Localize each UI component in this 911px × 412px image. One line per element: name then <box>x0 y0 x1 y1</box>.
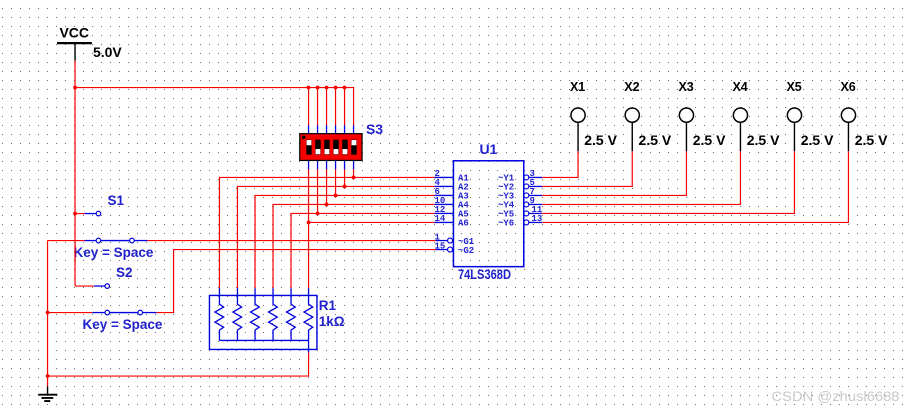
wire S3 pin5 bottom to row2 <box>344 169 346 186</box>
svg-text:U1: U1 <box>479 141 497 157</box>
wire S2 output riser to U1 pin 15 (~G2) <box>156 250 435 313</box>
resistor pack R1 pin stubs top <box>219 288 308 295</box>
svg-text:2.5 V: 2.5 V <box>801 132 834 148</box>
DIP switch S3 body <box>300 134 362 161</box>
S3 slot 6 (ON) <box>351 140 356 155</box>
svg-text:2.5 V: 2.5 V <box>693 132 726 148</box>
S3 slot 2 <box>315 140 320 155</box>
svg-text:5.0V: 5.0V <box>93 44 122 60</box>
svg-text:2.5 V: 2.5 V <box>747 132 780 148</box>
wire net A5: row5 horizontal and pulldown drop <box>291 213 434 288</box>
probe X3 <box>678 80 726 151</box>
wire S3 pin3 bottom to row4 <box>326 169 328 204</box>
R1 internal common bus <box>219 339 308 341</box>
svg-text:2.5 V: 2.5 V <box>584 132 617 148</box>
U1 ~G1 pin stub with bubble <box>436 238 453 243</box>
svg-text:VCC: VCC <box>59 24 89 40</box>
wire S3 pin6 bottom to row1 <box>353 169 355 177</box>
wire X3 to ~Y3 <box>542 151 686 195</box>
wire S3 pin2 bottom to row5 <box>317 169 319 213</box>
probe X5 <box>786 80 834 151</box>
svg-text:X3: X3 <box>678 80 693 94</box>
S3 slot 4 <box>333 140 338 155</box>
wire X1 to ~Y1 <box>542 151 578 177</box>
resistor R1 element 4 <box>269 295 278 340</box>
wire net A1: row1 horizontal and pulldown drop <box>219 177 434 288</box>
probe X6 <box>840 80 888 151</box>
svg-text:Key = Space: Key = Space <box>82 317 162 332</box>
U1 right output bubbles and stubs Y1-Y6 <box>529 177 542 222</box>
resistor pack R1 box <box>209 295 317 349</box>
wire S3 pin1 bottom to row6 <box>308 169 310 222</box>
ground symbol <box>38 376 57 401</box>
wire net A3: row3 horizontal and pulldown drop <box>255 195 434 288</box>
wire net A6: row6 horizontal and pulldown drop <box>309 222 435 288</box>
resistor R1 element 6 <box>304 295 313 340</box>
VCC power symbol <box>57 24 122 60</box>
wire X6 to ~Y6 <box>542 151 848 222</box>
resistor R1 element 5 <box>287 295 296 340</box>
wire VCC drop overlay across S1 key label <box>74 244 76 262</box>
probe X2 <box>624 80 672 151</box>
svg-text:1kΩ: 1kΩ <box>319 314 345 329</box>
U1 left pin stubs A1-A6 <box>434 177 453 222</box>
wire X5 to ~Y5 <box>542 151 794 213</box>
svg-text:13: 13 <box>531 214 542 224</box>
svg-text:S3: S3 <box>366 121 383 137</box>
svg-text:74LS368D: 74LS368D <box>458 267 511 282</box>
wire net A4: row4 horizontal and pulldown drop <box>273 204 434 288</box>
svg-text:2.5 V: 2.5 V <box>639 132 672 148</box>
resistor R1 element 3 <box>251 295 260 340</box>
node junction at S2 line <box>46 311 50 315</box>
switch S2 arm <box>75 284 110 289</box>
wire R1 common to ground bus <box>48 352 309 376</box>
node junction row3 <box>334 194 338 198</box>
U1 ~G2 pin stub with bubble <box>436 247 453 252</box>
S3 slot 1 (ON) <box>306 140 311 155</box>
svg-text:14: 14 <box>434 214 445 224</box>
node junction VCC bus <box>73 86 77 90</box>
wire S3 pin4 bottom to row3 <box>335 169 337 195</box>
wire left vertical S1/S2/ground <box>47 241 49 377</box>
node junction row6 <box>307 221 311 225</box>
wire X4 to ~Y4 <box>542 151 740 204</box>
probe X4 <box>732 80 780 151</box>
svg-text:~G2: ~G2 <box>458 246 474 256</box>
R1 common pin stub bottom <box>308 340 310 352</box>
DIP switch S3 top pin stubs <box>309 125 354 133</box>
resistor R1 element 2 <box>233 295 242 340</box>
svg-text:R1: R1 <box>319 298 337 313</box>
svg-text:X2: X2 <box>624 80 639 94</box>
wire X2 to ~Y2 <box>542 151 632 186</box>
svg-text:2.5 V: 2.5 V <box>855 132 888 148</box>
wire S3 pin1 top drop <box>308 88 310 126</box>
switch S2 contacts <box>48 310 157 315</box>
svg-text:X1: X1 <box>570 80 585 94</box>
wire S1 output to U1 pin 1 (~G1) <box>147 240 435 242</box>
svg-text:~Y6: ~Y6 <box>498 219 514 229</box>
node junction row4 <box>325 203 329 207</box>
svg-text:S1: S1 <box>107 193 124 208</box>
switch S1 arm <box>75 211 101 216</box>
wire S3 pin5 top drop <box>344 88 346 126</box>
node junction at ground bus <box>46 374 50 378</box>
switch S1 contacts <box>48 238 148 243</box>
node junction dots on VCC bus at DIP pins <box>307 86 347 90</box>
svg-text:X6: X6 <box>840 80 855 94</box>
wire net A2: row2 horizontal and pulldown drop <box>237 186 434 288</box>
resistor R1 element 1 <box>215 295 224 340</box>
svg-text:15: 15 <box>434 242 445 252</box>
wire S3 pin4 top drop <box>335 88 337 126</box>
svg-text:X5: X5 <box>786 80 801 94</box>
probe X1 <box>570 80 618 151</box>
node junction S1 arm on VCC drop <box>73 212 77 216</box>
wire VCC vertical drop to S2 arm <box>74 61 76 286</box>
wire S3 pin3 top drop <box>326 88 328 126</box>
node junction row2 <box>343 185 347 189</box>
op IC U1 74LS368D box <box>453 161 523 267</box>
wire S3 pin2 top drop <box>317 88 319 126</box>
wire top VCC bus to DIP switch <box>75 88 354 126</box>
svg-text:Key = Space: Key = Space <box>73 245 153 260</box>
S3 slot 3 <box>324 140 329 155</box>
svg-text:CSDN @zhusl6688: CSDN @zhusl6688 <box>772 389 900 404</box>
S3 slot 5 <box>342 140 347 155</box>
svg-text:S2: S2 <box>116 265 133 280</box>
svg-text:X4: X4 <box>732 80 747 94</box>
node junction row1 <box>352 176 356 180</box>
DIP switch S3 bottom pin stubs <box>309 160 354 169</box>
svg-text:A6: A6 <box>458 219 469 229</box>
node junction row5 <box>316 212 320 216</box>
